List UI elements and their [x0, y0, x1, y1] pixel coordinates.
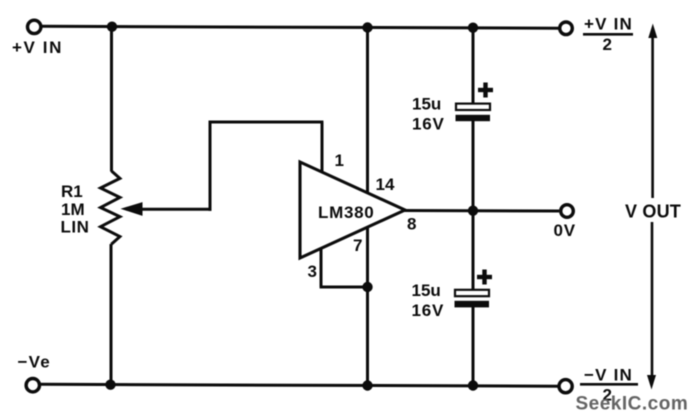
svg-text:1M: 1M — [61, 200, 85, 219]
svg-text:2: 2 — [603, 35, 612, 54]
svg-text:LM380: LM380 — [318, 203, 374, 222]
svg-text:7: 7 — [353, 236, 362, 255]
svg-text:1: 1 — [335, 151, 344, 170]
svg-text:15u: 15u — [412, 281, 441, 300]
svg-text:14: 14 — [376, 175, 395, 194]
svg-text:−Ve: −Ve — [18, 353, 51, 372]
svg-text:8: 8 — [407, 215, 416, 234]
svg-text:3: 3 — [308, 262, 317, 281]
svg-text:16V: 16V — [412, 301, 445, 320]
svg-text:15u: 15u — [412, 95, 441, 114]
svg-text:V OUT: V OUT — [625, 202, 681, 222]
svg-text:+V IN: +V IN — [584, 15, 633, 34]
svg-text:SeekIC.com: SeekIC.com — [576, 394, 689, 415]
svg-text:+V IN: +V IN — [12, 38, 63, 57]
svg-text:LIN: LIN — [61, 218, 90, 237]
svg-text:−V IN: −V IN — [584, 366, 633, 385]
svg-text:R1: R1 — [61, 182, 83, 201]
svg-text:16V: 16V — [412, 115, 445, 134]
svg-text:0V: 0V — [554, 221, 576, 240]
